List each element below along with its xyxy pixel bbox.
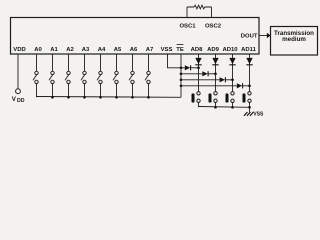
wire OSC1 stub — [186, 7, 188, 18]
wire address common bus — [37, 96, 182, 99]
switch S2 on A1 — [49, 54, 54, 97]
junction A7 bus — [147, 96, 150, 99]
svg-text:A0: A0 — [34, 47, 42, 53]
VDD terminal label — [12, 96, 25, 104]
wire TE pin down to address bus — [180, 54, 182, 97]
switch S7 on A6 — [129, 54, 134, 97]
wire VSS pin elbow to row 1 — [168, 54, 185, 68]
junction A1 bus — [51, 96, 54, 99]
wire AD9 column — [215, 54, 217, 91]
svg-text:A5: A5 — [114, 47, 122, 53]
svg-text:A6: A6 — [130, 47, 138, 53]
pin label TE with overline — [176, 45, 184, 53]
wire row 4 — [181, 85, 237, 87]
svg-text:AD10: AD10 — [222, 47, 238, 53]
diode D8 on AD11 — [246, 58, 252, 65]
diode D1 (row 1) — [185, 65, 199, 70]
junction A5 bus — [115, 96, 118, 99]
wire AD8 column — [198, 54, 200, 91]
junction TE row 1 — [180, 66, 183, 69]
junction A6 bus — [131, 96, 134, 99]
junction A3 bus — [83, 96, 86, 99]
svg-text:AD11: AD11 — [241, 47, 256, 53]
junction A4 bus — [99, 96, 102, 99]
wire AD11 column — [249, 54, 251, 91]
junction AD11 row 4 — [248, 84, 251, 87]
svg-text:OSC2: OSC2 — [205, 24, 222, 30]
diode D3 (row 3) — [220, 77, 233, 82]
pushbutton S12 on AD11 — [243, 92, 252, 108]
switch S4 on A3 — [81, 54, 86, 97]
junction bus AD10 — [231, 106, 234, 109]
svg-text:A3: A3 — [82, 47, 90, 53]
VDD supply terminal — [16, 89, 21, 94]
svg-text:AD8: AD8 — [191, 47, 204, 53]
wire row 2 — [181, 73, 202, 75]
transmission medium label — [274, 30, 314, 43]
arrowhead into transmission medium — [267, 33, 271, 38]
junction AD8 row 1 — [197, 66, 200, 69]
wire AD10 column — [232, 54, 234, 91]
svg-text:A2: A2 — [66, 47, 74, 53]
wire OSC2 stub — [211, 7, 213, 18]
junction A2 bus — [67, 96, 70, 99]
wire row 3 — [181, 79, 220, 81]
junction AD10 row 3 — [231, 78, 234, 81]
svg-text:DD: DD — [17, 98, 25, 104]
wire VDD pin to supply terminal — [17, 54, 19, 89]
junction bus AD11 / ground tap — [248, 106, 251, 109]
svg-text:AD9: AD9 — [207, 47, 220, 53]
svg-text:medium: medium — [282, 36, 306, 43]
diode D5 on AD8 — [195, 58, 201, 65]
switch S5 on A4 — [97, 54, 102, 97]
diode D2 (row 2) — [202, 71, 215, 76]
svg-text:TE: TE — [176, 47, 184, 53]
junction TE row 4 — [180, 84, 183, 87]
switch S1 on A0 — [33, 54, 38, 97]
switch S6 on A5 — [113, 54, 118, 97]
svg-text:OSC1: OSC1 — [179, 24, 196, 30]
svg-text:VDD: VDD — [13, 47, 25, 53]
junction AD9 row 2 — [214, 72, 217, 75]
junction bus AD9 — [214, 106, 217, 109]
pushbutton S10 on AD9 — [209, 92, 218, 108]
transmission medium box — [271, 27, 318, 56]
wire DOUT to transmission medium — [259, 35, 267, 37]
svg-text:VSS: VSS — [253, 112, 264, 118]
svg-text:A1: A1 — [50, 47, 58, 53]
junction TE row 2 — [180, 72, 183, 75]
switch S8 on A7 — [145, 54, 150, 97]
svg-text:VSS: VSS — [161, 47, 173, 53]
resistor R1 (oscillator resistor) — [187, 5, 212, 9]
diode D4 (row 4) — [237, 83, 250, 88]
svg-text:A7: A7 — [146, 47, 154, 53]
svg-text:DOUT: DOUT — [241, 34, 258, 40]
diode D7 on AD10 — [229, 58, 235, 65]
wire ground stub — [249, 107, 251, 112]
wire pushbutton common bus — [199, 106, 250, 109]
ground (VSS) symbol — [244, 112, 253, 116]
pushbutton S9 on AD8 — [192, 92, 201, 108]
junction TE row 3 — [180, 78, 183, 81]
encoder IC U1 body — [11, 18, 260, 55]
pushbutton S11 on AD10 — [226, 92, 235, 108]
svg-text:A4: A4 — [98, 47, 106, 53]
diode D6 on AD9 — [212, 58, 218, 65]
switch S3 on A2 — [65, 54, 70, 97]
